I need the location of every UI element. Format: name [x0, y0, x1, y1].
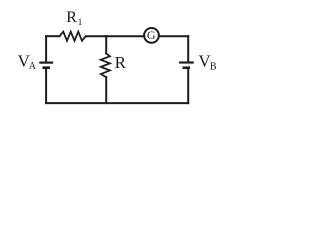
svg-text:R: R — [115, 53, 127, 72]
svg-text:A: A — [29, 61, 37, 72]
svg-text:G: G — [147, 28, 156, 42]
svg-text:B: B — [210, 61, 217, 72]
svg-text:R: R — [66, 9, 77, 26]
svg-text:1: 1 — [78, 18, 83, 28]
